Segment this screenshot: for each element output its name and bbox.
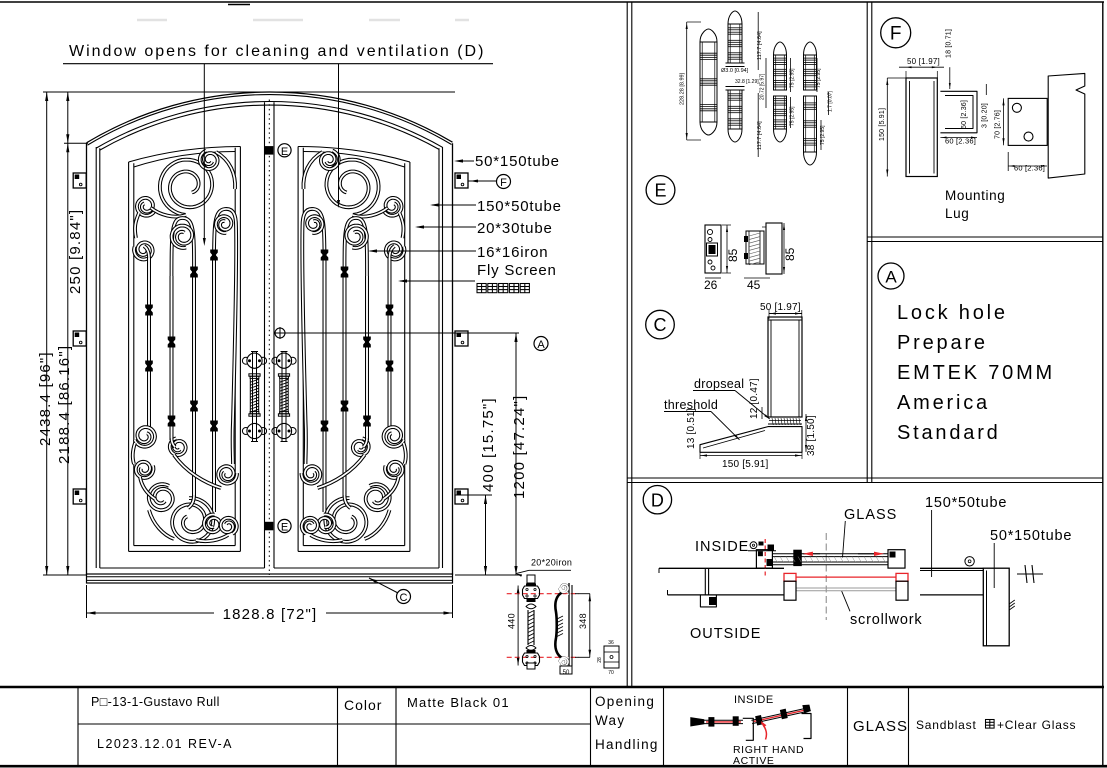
svg-text:Prepare: Prepare [897,332,988,354]
svg-text:150 [5.91]: 150 [5.91] [722,459,769,470]
svg-text:85: 85 [783,247,797,261]
svg-text:+Clear Glass: +Clear Glass [997,718,1076,732]
svg-text:EMTEK 70MM: EMTEK 70MM [897,362,1055,384]
svg-text:20.72 [5.97]: 20.72 [5.97] [760,73,766,100]
svg-text:P□-13-1-Gustavo Rull: P□-13-1-Gustavo Rull [91,695,220,709]
svg-text:scrollwork: scrollwork [850,612,922,628]
svg-text:E: E [654,181,666,201]
svg-text:85: 85 [726,248,740,262]
svg-text:13 [0.51]: 13 [0.51] [686,408,697,449]
svg-text:Lug: Lug [945,206,969,221]
svg-text:L2023.12.01 REV-A: L2023.12.01 REV-A [97,737,233,751]
svg-text:50 [1.97]: 50 [1.97] [907,57,940,66]
svg-text:228.28 [8.99]: 228.28 [8.99] [680,72,686,105]
svg-text:GLASS: GLASS [853,718,908,735]
svg-text:117.7 [4.64]: 117.7 [4.64] [757,121,763,150]
svg-text:250 [9.84"]: 250 [9.84"] [67,209,84,294]
svg-text:348: 348 [578,613,588,629]
svg-text:50 [1.97]: 50 [1.97] [760,302,801,313]
svg-text:75 [2.95]: 75 [2.95] [816,68,822,88]
svg-text:Sandblast: Sandblast [916,718,977,732]
svg-text:75 [2.95]: 75 [2.95] [790,68,796,88]
svg-text:Window opens for cleaning and: Window opens for cleaning and ventilatio… [69,43,485,60]
svg-text:3 [0.20]: 3 [0.20] [982,103,989,128]
svg-text:A: A [885,268,897,287]
svg-text:1200 [47.24"]: 1200 [47.24"] [511,395,528,499]
svg-text:Color: Color [344,697,382,713]
svg-text:INSIDE: INSIDE [695,539,749,555]
svg-text:70 [2.76]: 70 [2.76] [995,110,1002,139]
svg-text:45: 45 [747,278,761,292]
svg-text:150*50tube: 150*50tube [477,198,562,215]
svg-text:18 [0.71]: 18 [0.71] [946,29,953,58]
svg-text:Handling: Handling [595,737,659,752]
svg-text:Standard: Standard [897,422,1001,444]
svg-text:60 [2.36]: 60 [2.36] [1014,164,1045,173]
svg-text:20*30tube: 20*30tube [477,220,553,237]
svg-text:1.7 [0.07]: 1.7 [0.07] [828,91,834,112]
svg-text:F: F [890,24,902,45]
svg-text:Matte Black 01: Matte Black 01 [407,695,510,710]
svg-text:28: 28 [597,657,603,663]
svg-text:12 [0.47]: 12 [0.47] [749,378,760,419]
svg-text:D: D [651,491,664,511]
svg-text:C: C [654,315,667,335]
svg-text:75 [2.95]: 75 [2.95] [790,106,796,126]
svg-text:OUTSIDE: OUTSIDE [690,626,761,642]
svg-text:26: 26 [704,278,718,292]
svg-text:20*20iron: 20*20iron [531,558,572,568]
svg-text:Mounting: Mounting [945,188,1005,203]
svg-text:Opening: Opening [595,694,655,709]
svg-text:150 [5.91]: 150 [5.91] [879,108,886,141]
svg-text:1828.8 [72"]: 1828.8 [72"] [223,606,318,623]
svg-text:dropseal: dropseal [694,377,744,391]
svg-text:INSIDE: INSIDE [734,694,774,706]
svg-text:GLASS: GLASS [844,507,897,523]
svg-text:32.8 [1.29]: 32.8 [1.29] [735,79,759,85]
svg-text:C: C [400,592,408,604]
svg-text:440: 440 [507,613,517,629]
svg-text:50: 50 [563,670,570,676]
svg-text:70: 70 [608,670,614,676]
svg-text:Lock hole: Lock hole [897,302,1008,324]
svg-text:60 [2.36]: 60 [2.36] [961,100,968,129]
svg-text:E: E [281,522,288,534]
svg-text:Way: Way [595,713,625,728]
svg-text:ACTIVE: ACTIVE [733,755,775,767]
svg-text:16*16iron: 16*16iron [477,244,548,261]
svg-text:36: 36 [608,640,614,646]
svg-text:America: America [897,392,990,414]
svg-text:400 [15.75"]: 400 [15.75"] [480,397,497,492]
svg-text:117.7 [4.64]: 117.7 [4.64] [757,31,763,60]
svg-text:E: E [281,146,288,158]
svg-text:38 [1.50]: 38 [1.50] [806,415,817,456]
svg-text:75 [2.95]: 75 [2.95] [820,125,826,145]
svg-text:50*150tube: 50*150tube [475,153,560,170]
svg-text:A: A [537,339,545,351]
svg-text:150*50tube: 150*50tube [925,495,1007,511]
svg-text:F: F [500,177,507,189]
svg-text:2438.4 [96"]: 2438.4 [96"] [37,351,54,446]
svg-text:Fly Screen: Fly Screen [477,262,557,279]
svg-text:Ø3.0 [0.94]: Ø3.0 [0.94] [721,68,749,74]
svg-text:50*150tube: 50*150tube [990,528,1072,544]
svg-text:2188.4 [86.16"]: 2188.4 [86.16"] [56,345,73,464]
